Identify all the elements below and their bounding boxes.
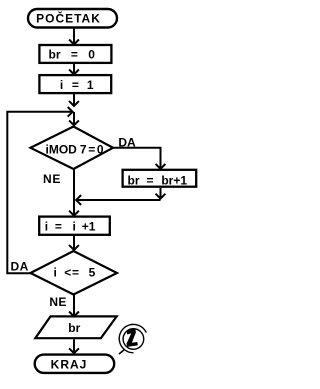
decision diamond iMOD7=0 <box>31 127 114 170</box>
decision diamond i<=5 <box>31 251 118 295</box>
terminator KRAJ <box>35 355 115 373</box>
wire junction to decision1 <box>69 112 79 125</box>
wire DA to br=br+1 <box>113 148 165 169</box>
svg-text:br: br <box>68 321 80 335</box>
wire br=0 to i=1 <box>69 64 79 74</box>
wire i=i+1 to decision2 <box>69 236 79 250</box>
svg-text:DA: DA <box>11 259 29 273</box>
svg-text:KRAJ: KRAJ <box>51 358 88 372</box>
process i = 1 <box>39 75 111 93</box>
svg-text:POČETAK: POČETAK <box>36 10 101 25</box>
logo watermark <box>119 324 146 354</box>
process i = i +1 <box>39 217 110 235</box>
svg-text:NE: NE <box>43 172 61 186</box>
io parallelogram br <box>35 316 116 338</box>
wire br=br+1 down <box>156 188 166 199</box>
wire decision1 NE down to i=i+1 <box>69 169 79 216</box>
terminator POČETAK <box>28 9 117 28</box>
wire POČETAK to br=0 <box>69 29 79 45</box>
wire back to main line with left arrow <box>76 195 160 205</box>
wire DA loop from decision2 left up to junction <box>7 107 72 273</box>
process br = 0 <box>39 45 111 63</box>
wire decision2 NE down to io <box>69 295 79 317</box>
wire i=1 down to junction <box>69 94 79 106</box>
process br = br+1 <box>123 170 197 188</box>
svg-text:iMOD7=0: iMOD7=0 <box>46 142 104 156</box>
wire io to KRAJ <box>69 339 79 353</box>
svg-text:NE: NE <box>49 295 66 309</box>
svg-text:br=0: br=0 <box>49 48 96 62</box>
